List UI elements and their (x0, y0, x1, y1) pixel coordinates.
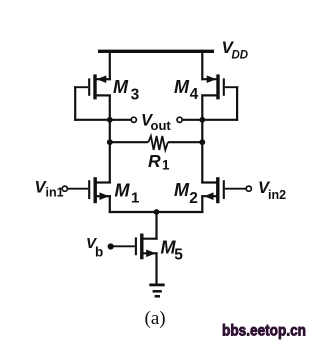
svg-text:in1: in1 (46, 186, 64, 200)
svg-text:4: 4 (190, 86, 199, 103)
svg-text:R: R (148, 151, 161, 171)
svg-text:(a): (a) (145, 308, 166, 329)
svg-text:1: 1 (162, 157, 170, 172)
svg-text:M: M (113, 77, 129, 97)
svg-text:M: M (115, 180, 131, 200)
svg-text:DD: DD (232, 49, 249, 61)
svg-text:5: 5 (174, 247, 183, 264)
svg-text:2: 2 (189, 190, 198, 207)
svg-text:out: out (151, 118, 172, 133)
svg-text:in2: in2 (268, 188, 286, 202)
svg-text:b: b (95, 244, 103, 259)
svg-text:1: 1 (131, 189, 139, 206)
svg-text:bbs.eetop.cn: bbs.eetop.cn (222, 322, 306, 339)
svg-text:M: M (174, 180, 190, 200)
svg-text:M: M (174, 77, 190, 97)
svg-text:3: 3 (131, 87, 140, 104)
